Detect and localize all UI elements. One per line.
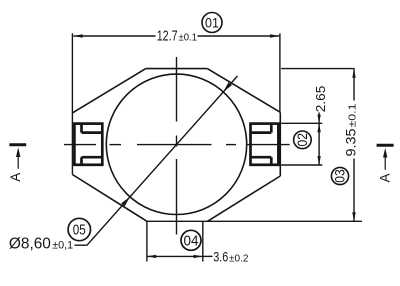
svg-text:±0,1: ±0,1 bbox=[52, 240, 73, 252]
dimension 3.6 extension lines bbox=[146, 221, 148, 261]
svg-text:05: 05 bbox=[73, 222, 86, 239]
part outline: top-left slant bbox=[72, 69, 145, 113]
left clip box bbox=[74, 124, 102, 165]
svg-text:01: 01 bbox=[205, 15, 219, 31]
right extension line of 12.7 bbox=[279, 33, 281, 112]
part outline: top-right slant bbox=[207, 69, 280, 113]
svg-text:03: 03 bbox=[333, 169, 348, 183]
balloon 02 bbox=[294, 131, 312, 149]
part outline: left edge (extends up as extension line) bbox=[71, 33, 73, 174]
svg-text:A: A bbox=[377, 173, 392, 182]
horizontal center line bbox=[64, 144, 96, 146]
top extension line for 9.35 bbox=[281, 68, 354, 70]
leader line Ø8.60 bbox=[75, 76, 238, 245]
part outline: bottom edge (extends right as extension line) bbox=[147, 220, 362, 222]
part outline: top edge bbox=[146, 68, 208, 70]
dimension 12.7 line bbox=[73, 33, 280, 112]
svg-text:2.65: 2.65 bbox=[313, 86, 328, 113]
balloon 03 bbox=[331, 167, 348, 184]
dimension 02 (clip height) bbox=[318, 123, 320, 165]
clip extension lines (right) bbox=[281, 122, 322, 124]
right section marker A bbox=[377, 144, 394, 147]
text 9.35±0.1 (rotated) bbox=[344, 103, 359, 156]
12.7 arrows bbox=[73, 34, 279, 37]
svg-text:Ø8,60: Ø8,60 bbox=[9, 236, 51, 253]
balloon 04 bbox=[181, 230, 201, 250]
right clip box bbox=[251, 124, 279, 165]
svg-text:±0.1: ±0.1 bbox=[347, 103, 359, 127]
text 2.65 (rotated) bbox=[313, 86, 328, 113]
svg-text:12.7: 12.7 bbox=[157, 28, 178, 45]
dimension 2.65 bbox=[318, 113, 320, 124]
svg-text:±0.1: ±0.1 bbox=[179, 32, 198, 44]
section letter A (right) bbox=[377, 173, 392, 182]
svg-text:±0.2: ±0.2 bbox=[229, 252, 249, 264]
svg-text:04: 04 bbox=[184, 233, 199, 250]
svg-text:3.6: 3.6 bbox=[213, 248, 228, 264]
part outline: bottom-right slant bbox=[208, 176, 281, 221]
vertical center line bbox=[176, 57, 178, 122]
dimension 3.6 line bbox=[147, 255, 203, 257]
left section marker A bbox=[9, 143, 26, 146]
balloon 01 bbox=[202, 13, 222, 33]
bore circle Ø8.60 bbox=[106, 74, 246, 214]
svg-text:A: A bbox=[8, 173, 23, 182]
svg-text:02: 02 bbox=[295, 133, 310, 147]
balloon 05 bbox=[68, 218, 90, 240]
svg-text:9.35: 9.35 bbox=[344, 129, 359, 157]
part outline: bottom-left slant bbox=[72, 175, 147, 222]
section letter A (left) bbox=[8, 173, 23, 182]
part outline: right edge bbox=[279, 112, 281, 176]
dimension 9.35 line bbox=[353, 69, 355, 101]
